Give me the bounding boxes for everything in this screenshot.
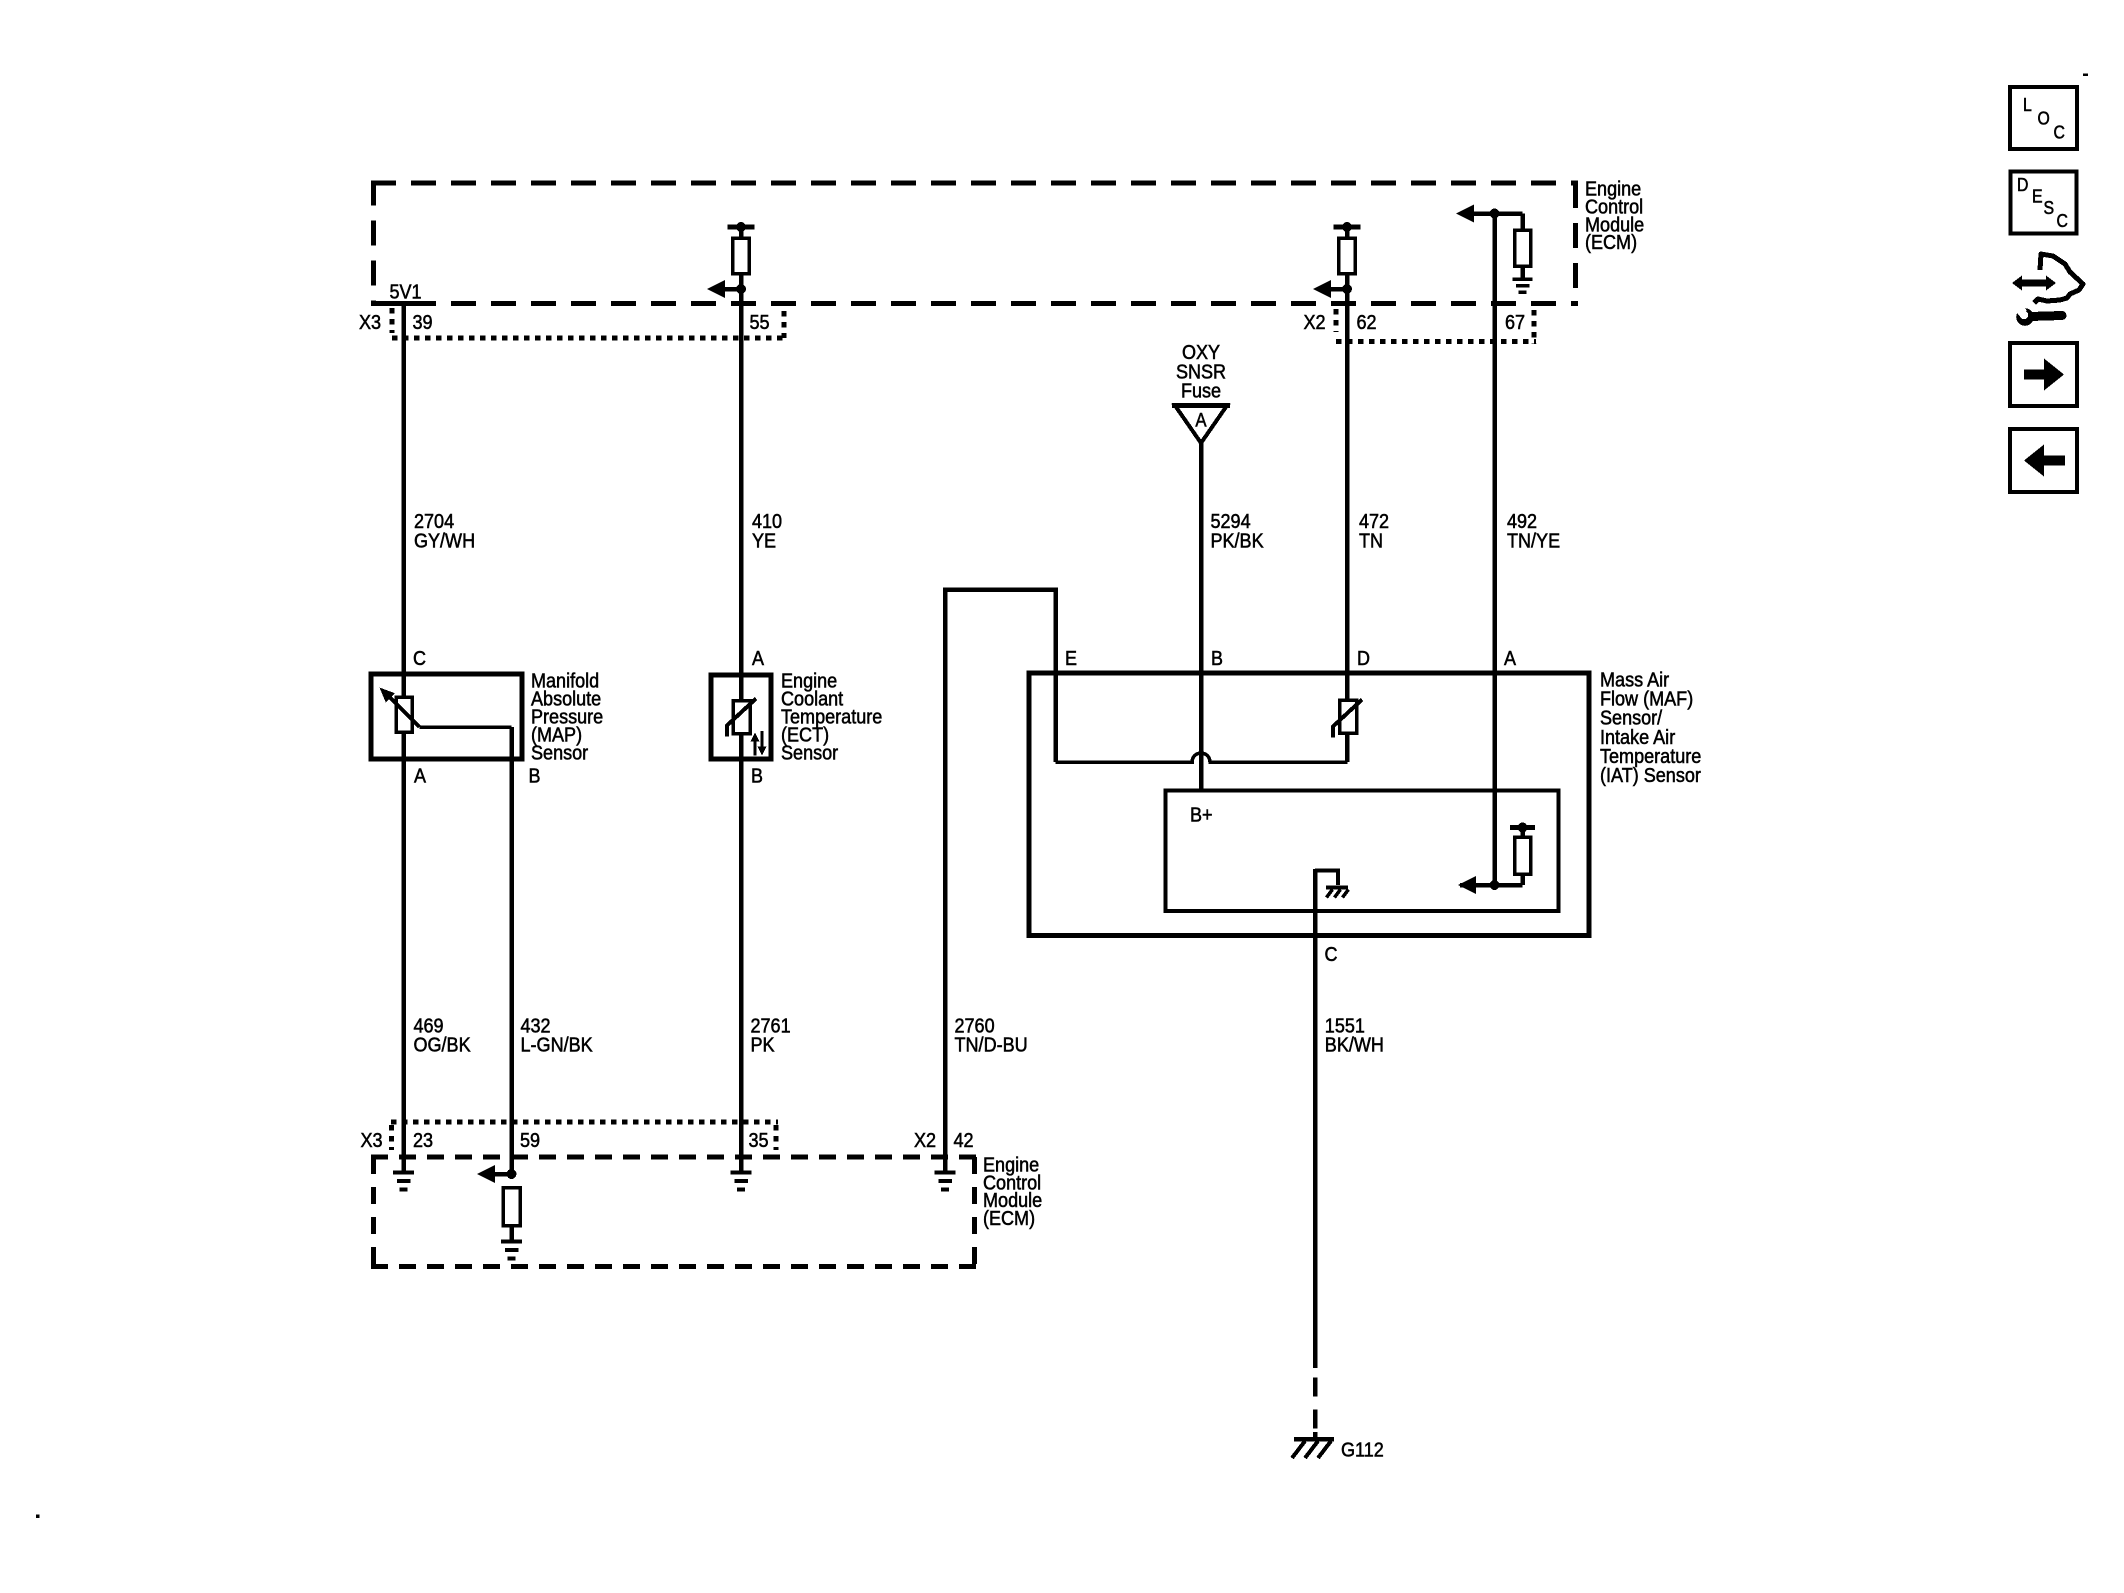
svg-text:(ECM): (ECM)	[1585, 231, 1637, 254]
svg-text:D: D	[1357, 647, 1370, 670]
svg-text:GY/WH: GY/WH	[414, 530, 475, 553]
svg-text:Fuse: Fuse	[1181, 380, 1221, 403]
svg-text:Sensor: Sensor	[531, 742, 588, 765]
svg-text:35: 35	[749, 1129, 769, 1152]
svg-text:C: C	[2054, 123, 2065, 143]
svg-text:39: 39	[413, 311, 433, 334]
svg-text:L: L	[2023, 95, 2032, 115]
svg-text:PK/BK: PK/BK	[1211, 530, 1264, 553]
svg-text:5V1: 5V1	[390, 281, 422, 304]
svg-text:B+: B+	[1190, 804, 1213, 827]
svg-text:PK: PK	[751, 1034, 775, 1057]
svg-text:A: A	[1195, 411, 1206, 432]
svg-text:E: E	[1065, 647, 1077, 670]
svg-text:C: C	[413, 647, 426, 670]
svg-text:42: 42	[954, 1129, 974, 1152]
svg-text:E: E	[2032, 187, 2043, 207]
svg-text:C: C	[2057, 211, 2068, 231]
svg-text:A: A	[1504, 647, 1516, 670]
svg-text:62: 62	[1357, 311, 1377, 334]
svg-text:A: A	[414, 765, 426, 788]
svg-text:X2: X2	[914, 1129, 936, 1152]
svg-text:TN/D-BU: TN/D-BU	[955, 1034, 1028, 1057]
svg-text:23: 23	[413, 1129, 433, 1152]
svg-text:L-GN/BK: L-GN/BK	[521, 1034, 593, 1057]
svg-text:C: C	[1325, 943, 1338, 966]
svg-text:D: D	[2017, 175, 2028, 195]
svg-text:B: B	[529, 765, 541, 788]
svg-text:(IAT) Sensor: (IAT) Sensor	[1600, 764, 1701, 787]
svg-text:B: B	[751, 765, 763, 788]
svg-text:TN/YE: TN/YE	[1507, 530, 1560, 553]
svg-text:S: S	[2044, 198, 2055, 218]
svg-text:O: O	[2038, 109, 2050, 129]
svg-text:A: A	[752, 647, 764, 670]
svg-text:X2: X2	[1304, 311, 1326, 334]
svg-text:G112: G112	[1341, 1439, 1384, 1462]
svg-text:(ECM): (ECM)	[983, 1207, 1035, 1230]
svg-text:X3: X3	[359, 311, 381, 334]
svg-text:YE: YE	[752, 530, 776, 553]
svg-text:67: 67	[1505, 311, 1525, 334]
svg-text:TN: TN	[1359, 530, 1383, 553]
svg-text:OG/BK: OG/BK	[414, 1034, 471, 1057]
svg-text:BK/WH: BK/WH	[1325, 1034, 1384, 1057]
svg-text:55: 55	[750, 311, 770, 334]
svg-text:B: B	[1211, 647, 1223, 670]
svg-text:X3: X3	[361, 1129, 383, 1152]
svg-text:59: 59	[520, 1129, 540, 1152]
svg-text:Sensor: Sensor	[781, 742, 838, 765]
